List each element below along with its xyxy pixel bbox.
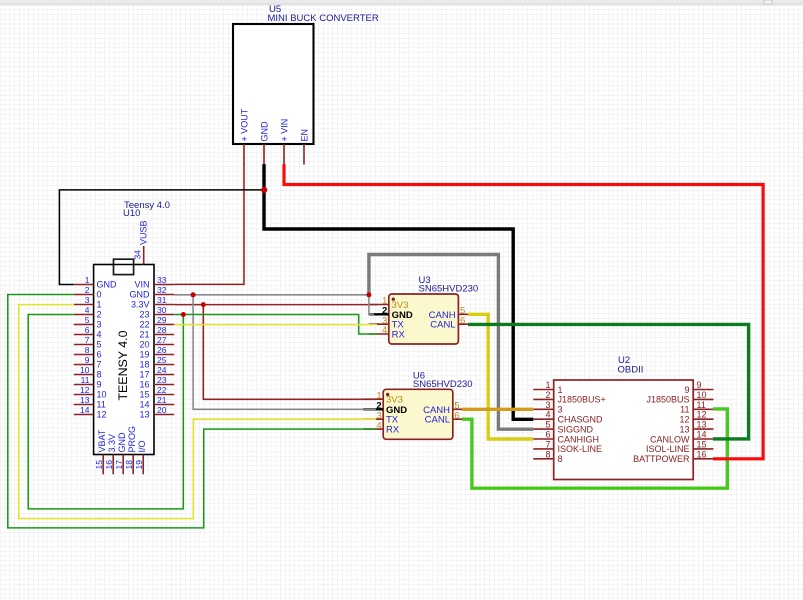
pin number 3 — [382, 315, 387, 326]
svg-text:18: 18 — [124, 460, 134, 470]
pin label 13 (pin 20) — [139, 410, 149, 420]
pin label GND (pin 17) — [117, 432, 127, 453]
svg-text:6: 6 — [545, 430, 550, 440]
svg-text:MINI BUCK CONVERTER: MINI BUCK CONVERTER — [268, 13, 379, 24]
pin label 11 (pin 11) — [680, 405, 689, 415]
wire +12V thick red (buck +VIN to OBDII BATTPOWER) — [284, 164, 763, 459]
svg-text:4: 4 — [382, 325, 387, 336]
svg-text:3.3V: 3.3V — [131, 300, 150, 310]
pin 5 stub (U2 left) — [533, 428, 553, 430]
pin 15 stub (U2 right) — [693, 448, 713, 450]
pin EN stub — [303, 144, 305, 165]
pin number 7 — [545, 439, 550, 449]
wire TX1 yellow net (Teensy pin29 to U3 TX) — [174, 324, 377, 326]
pin number 6 — [85, 325, 90, 335]
pin 24 stub (Teensy right) — [154, 374, 174, 376]
svg-text:4: 4 — [97, 330, 102, 340]
pin label VBAT (pin 15) — [97, 429, 107, 452]
pin label CANLOW (pin 14) — [650, 434, 690, 444]
svg-text:6: 6 — [454, 410, 459, 421]
wire GND thin (Teensy pin1 GND to thick GND wire) — [59, 190, 264, 285]
svg-text:11: 11 — [697, 400, 706, 410]
svg-text:U10: U10 — [123, 208, 140, 219]
svg-text:2: 2 — [97, 310, 102, 320]
pin label RX (pin 4) — [392, 330, 406, 341]
svg-text:VIN: VIN — [134, 280, 149, 290]
pin number 14 — [697, 430, 707, 440]
pin number 3 — [376, 410, 381, 421]
wire RX1 green net (Teensy pin4 / pin30 to U3 RX) — [28, 315, 377, 509]
pin number 13 — [697, 420, 707, 430]
label U2 — [618, 355, 630, 366]
pin label 15 (pin 22) — [139, 390, 149, 400]
pin label 21 (pin 28) — [139, 330, 149, 340]
svg-text:14: 14 — [697, 430, 707, 440]
pin number 12 — [80, 385, 90, 395]
pin number 30 — [157, 305, 167, 315]
svg-text:1: 1 — [558, 385, 563, 395]
svg-text:9: 9 — [684, 385, 689, 395]
pin label GND (pin 1) — [97, 280, 118, 290]
svg-text:3: 3 — [545, 400, 550, 410]
pin number 20 — [157, 405, 167, 415]
IC U3 body (SN65HVD230) — [389, 294, 459, 344]
svg-text:9: 9 — [97, 380, 102, 390]
pin label CANL (pin 6) — [430, 320, 455, 331]
pin number 33 — [157, 275, 167, 285]
svg-text:6: 6 — [97, 350, 102, 360]
pin number 29 — [157, 315, 167, 325]
svg-text:33: 33 — [157, 275, 167, 285]
svg-text:13: 13 — [80, 395, 90, 405]
pin number 12 — [697, 410, 707, 420]
pin 10 stub (Teensy left) — [74, 374, 94, 376]
svg-text:1: 1 — [97, 300, 102, 310]
pin number 11 — [697, 400, 706, 410]
pin label 22 (pin 29) — [139, 320, 149, 330]
pin label SIGGND (pin 5) — [558, 424, 594, 434]
pin number 25 — [157, 355, 167, 365]
pin 25 stub (Teensy right) — [154, 364, 174, 366]
svg-text:3: 3 — [85, 295, 90, 305]
wire CANH2 orange (U6 CANH to OBDII pin3) — [462, 408, 533, 411]
svg-text:14: 14 — [139, 400, 149, 410]
pin 2 stub (Teensy left) — [74, 294, 94, 296]
pin number 5 — [460, 306, 465, 317]
svg-text:23: 23 — [139, 310, 149, 320]
svg-text:21: 21 — [157, 395, 167, 405]
pin number 1 — [376, 390, 381, 401]
pin 19 stub (Teensy bottom) — [142, 455, 144, 475]
svg-text:14: 14 — [80, 405, 90, 415]
pin +VIN stub — [283, 144, 285, 165]
svg-text:CANL: CANL — [425, 415, 450, 426]
pin number 18 — [124, 460, 134, 470]
pin 29 stub (Teensy right) — [154, 324, 174, 326]
pin number 31 — [157, 295, 167, 305]
pin number 3 — [85, 295, 90, 305]
svg-text:16: 16 — [139, 380, 149, 390]
pin 13 stub (U2 right) — [693, 428, 713, 430]
svg-text:10: 10 — [80, 365, 90, 375]
svg-text:3: 3 — [558, 405, 563, 415]
pin 14 stub (Teensy left) — [74, 414, 94, 416]
pin 6 stub (U3 right) — [458, 323, 478, 325]
pin number 27 — [157, 335, 167, 345]
pin number 15 — [94, 460, 104, 470]
pin 23 stub (Teensy right) — [154, 384, 174, 386]
IC U6 body (SN65HVD230) — [383, 389, 453, 439]
svg-text:13: 13 — [679, 424, 689, 434]
pin number 15 — [697, 439, 707, 449]
svg-text:27: 27 — [157, 335, 167, 345]
svg-text:34: 34 — [133, 250, 143, 260]
wire GND gray thin (Teensy pin32 to U3 pin2 / U6 pin2) — [174, 295, 376, 410]
svg-text:7: 7 — [85, 335, 90, 345]
pin number 6 — [545, 430, 550, 440]
svg-text:7: 7 — [545, 439, 550, 449]
junction gray branch — [191, 292, 196, 297]
label U10 — [123, 208, 140, 219]
pin label TX (pin 3) — [392, 320, 405, 331]
pin label 0 (pin 2) — [97, 290, 102, 300]
pin 2 stub (U6 left) — [363, 408, 383, 410]
pin label 19 (pin 26) — [139, 350, 149, 360]
svg-text:24: 24 — [157, 365, 167, 375]
svg-text:0: 0 — [97, 290, 102, 300]
pin 31 stub (Teensy right) — [154, 304, 174, 306]
pin label CANH (pin 5) — [423, 405, 450, 416]
svg-text:10: 10 — [697, 390, 707, 400]
wire 3V3 net (Teensy 3.3V pin31 to U3 pin1 and U6 pin1) — [174, 305, 377, 400]
pin number 32 — [157, 285, 167, 295]
pin 28 stub (Teensy right) — [154, 334, 174, 336]
pin number 5 — [454, 401, 459, 412]
pin number 9 — [697, 380, 702, 390]
svg-text:8: 8 — [545, 449, 550, 459]
svg-text:11: 11 — [81, 375, 90, 385]
pin label GND (pin 32) — [130, 290, 151, 300]
pin number 16 — [104, 460, 114, 470]
svg-text:5: 5 — [545, 420, 550, 430]
pin number 19 — [134, 460, 144, 470]
pin label 1 (pin 3) — [97, 300, 102, 310]
label U6 — [413, 370, 425, 381]
svg-text:+ VOUT: + VOUT — [240, 108, 250, 141]
pin 16 stub (Teensy bottom) — [112, 455, 114, 475]
pin label 4 (pin 6) — [97, 330, 102, 340]
svg-text:3: 3 — [97, 320, 102, 330]
svg-text:22: 22 — [157, 385, 167, 395]
svg-text:7: 7 — [97, 360, 102, 370]
svg-text:19: 19 — [139, 350, 149, 360]
pin number 4 — [85, 305, 90, 315]
svg-text:18: 18 — [139, 360, 149, 370]
pin 16 stub (U2 right) — [693, 458, 713, 460]
pin 9 stub (Teensy left) — [74, 364, 94, 366]
svg-text:OBDII: OBDII — [618, 365, 644, 376]
pin 6 stub (Teensy left) — [74, 334, 94, 336]
pin number 2 — [85, 285, 90, 295]
svg-text:4: 4 — [545, 410, 550, 420]
pin label 2 (pin 4) — [97, 310, 102, 320]
svg-text:21: 21 — [139, 330, 149, 340]
svg-text:16: 16 — [697, 449, 707, 459]
svg-text:12: 12 — [97, 410, 107, 420]
svg-text:VBAT: VBAT — [97, 429, 107, 452]
pin 5 stub (U6 right) — [453, 408, 473, 410]
svg-text:2: 2 — [545, 390, 550, 400]
pin label ISOL-LINE (pin 15) — [646, 444, 690, 454]
pin label CANHIGH (pin 6) — [558, 434, 600, 444]
U10 usb notch — [114, 259, 134, 274]
big label TEENSY 4.0 vertical — [116, 330, 130, 400]
svg-text:RX: RX — [386, 425, 400, 436]
pin 4 stub (U6 left) — [363, 428, 383, 430]
pin 1 stub (Teensy left) — [74, 284, 94, 286]
pin number 2 — [545, 390, 550, 400]
svg-text:CANLOW: CANLOW — [650, 434, 690, 444]
pin GND stub — [263, 144, 265, 165]
pin number 4 — [545, 410, 550, 420]
pin number 14 — [80, 405, 90, 415]
wire RX2 green net (Teensy pin2 to U6 RX) — [8, 295, 376, 528]
pin label +VIN — [280, 119, 290, 142]
svg-text:ISOL-LINE: ISOL-LINE — [646, 444, 690, 454]
svg-text:1: 1 — [545, 380, 550, 390]
svg-text:I/O: I/O — [137, 440, 147, 452]
svg-text:16: 16 — [104, 460, 114, 470]
pin label 23 (pin 30) — [139, 310, 149, 320]
pin 1 stub (U3 left) — [369, 304, 389, 306]
junction gray at U3 — [366, 292, 371, 297]
pin number 10 — [80, 365, 90, 375]
pin label 3V3 (pin 1) — [386, 395, 403, 406]
wire SIGGND thick gray (U3 GND junction to OBDII SIGGND) — [369, 255, 533, 430]
svg-text:26: 26 — [157, 345, 167, 355]
pin 7 stub (Teensy left) — [74, 344, 94, 346]
IC U10 body — [94, 265, 154, 455]
pin label 12 (pin 12) — [679, 415, 689, 425]
top panel tab handle — [764, 0, 772, 4]
pin 3 stub (Teensy left) — [74, 304, 94, 306]
pin 1 stub (U6 left) — [363, 398, 383, 400]
svg-text:4: 4 — [376, 420, 381, 431]
svg-text:6: 6 — [460, 315, 465, 326]
svg-text:15: 15 — [697, 439, 707, 449]
junction 3V3 branch — [201, 302, 206, 307]
pin 4 stub (U2 left) — [533, 418, 553, 420]
svg-text:20: 20 — [139, 340, 149, 350]
svg-text:8: 8 — [558, 454, 563, 464]
pin +VOUT stub — [243, 144, 245, 165]
pin 12 stub (Teensy left) — [74, 394, 94, 396]
pin label 12 (pin 14) — [97, 410, 107, 420]
pin 3 stub (U3 left) — [369, 323, 389, 325]
pin 1 stub (U2 left) — [533, 389, 553, 391]
pin 5 stub (U3 right) — [458, 313, 478, 315]
svg-text:PROG: PROG — [127, 426, 137, 453]
pin 6 stub (U2 left) — [533, 438, 553, 440]
pin label 18 (pin 25) — [139, 360, 149, 370]
pin 4 stub (Teensy left) — [74, 314, 94, 316]
pin number 6 — [454, 410, 459, 421]
pin number 13 — [80, 395, 90, 405]
svg-text:BATTPOWER: BATTPOWER — [633, 454, 690, 464]
pin number 11 — [81, 375, 90, 385]
svg-text:22: 22 — [139, 320, 149, 330]
pin number 28 — [157, 325, 167, 335]
pin label 14 (pin 21) — [139, 400, 149, 410]
svg-text:9: 9 — [85, 355, 90, 365]
pin 9 stub (U2 right) — [693, 389, 713, 391]
top panel strip — [0, 0, 803, 6]
pin 14 stub (U2 right) — [693, 438, 713, 440]
svg-text:19: 19 — [134, 460, 144, 470]
pin 33 stub (Teensy right) — [154, 284, 174, 286]
svg-text:SN65HVD230: SN65HVD230 — [413, 379, 473, 390]
pin number 34 — [133, 250, 143, 260]
pin label 20 (pin 27) — [139, 340, 149, 350]
junction green RX1 branch — [181, 312, 186, 317]
svg-text:12: 12 — [80, 385, 90, 395]
connector U2 body (OBDII) — [554, 380, 694, 480]
pin number 4 — [376, 420, 381, 431]
svg-text:CANHIGH: CANHIGH — [558, 434, 600, 444]
svg-text:EN: EN — [300, 129, 310, 142]
wire CANH1 thick yellow (U3 CANH to OBDII CANHIGH) — [468, 314, 533, 439]
pin number 22 — [157, 385, 167, 395]
svg-text:ISOK-LINE: ISOK-LINE — [558, 444, 603, 454]
pin label +VOUT — [240, 108, 250, 141]
svg-text:29: 29 — [157, 315, 167, 325]
pin label PROG (pin 18) — [127, 426, 137, 453]
pin number 2 — [382, 306, 387, 317]
pin label CANL (pin 6) — [425, 415, 450, 426]
pin number 16 — [697, 449, 707, 459]
pin label CHASGND (pin 4) — [558, 415, 604, 425]
pin 2 stub (U3 left) — [369, 313, 389, 315]
pin label 1 (pin 1) — [558, 385, 563, 395]
wire CANL2 bright green (U6 CANL to OBDII pin11) — [462, 409, 727, 488]
pin label GND (pin 2) — [386, 405, 407, 416]
pin number 4 — [382, 325, 387, 336]
pin label 5 (pin 7) — [97, 340, 102, 350]
pin 2 stub (U2 left) — [533, 398, 553, 400]
svg-text:20: 20 — [157, 405, 167, 415]
svg-text:8: 8 — [85, 345, 90, 355]
svg-text:GND: GND — [260, 121, 270, 142]
pin 34 stub — [143, 246, 145, 265]
wire CANL1 thick dark green (U3 CANL to OBDII CANLOW) — [468, 324, 749, 439]
pin label 3V3 (pin 1) — [392, 300, 409, 311]
pin label 16 (pin 23) — [139, 380, 149, 390]
svg-text:3.3V: 3.3V — [107, 434, 117, 453]
pin number 1 — [85, 275, 90, 285]
svg-text:11: 11 — [680, 405, 689, 415]
svg-text:28: 28 — [157, 325, 167, 335]
svg-text:11: 11 — [97, 400, 106, 410]
label MINI BUCK CONVERTER — [268, 13, 379, 24]
pin label EN — [300, 129, 310, 142]
pin label RX (pin 4) — [386, 425, 400, 436]
svg-text:15: 15 — [94, 460, 104, 470]
svg-text:GND: GND — [117, 432, 127, 453]
pin number 10 — [697, 390, 707, 400]
pin label 9 (pin 11) — [97, 380, 102, 390]
pin 8 stub (Teensy left) — [74, 354, 94, 356]
svg-text:23: 23 — [157, 375, 167, 385]
svg-text:+ VIN: + VIN — [280, 119, 290, 142]
pin number 8 — [85, 345, 90, 355]
pin 30 stub (Teensy right) — [154, 314, 174, 316]
svg-text:J1850BUS+: J1850BUS+ — [558, 395, 606, 405]
pin number 24 — [157, 365, 167, 375]
pin number 6 — [460, 315, 465, 326]
pin label 11 (pin 13) — [97, 400, 106, 410]
svg-text:1: 1 — [85, 275, 90, 285]
pin label ISOK-LINE (pin 7) — [558, 444, 603, 454]
pin 22 stub (Teensy right) — [154, 394, 174, 396]
pin 12 stub (U2 right) — [693, 418, 713, 420]
pin label 13 (pin 13) — [679, 424, 689, 434]
svg-text:15: 15 — [139, 390, 149, 400]
svg-text:4: 4 — [85, 305, 90, 315]
pin 18 stub (Teensy bottom) — [132, 455, 134, 475]
svg-text:13: 13 — [139, 410, 149, 420]
pin 32 stub (Teensy right) — [154, 294, 174, 296]
pin number 17 — [114, 460, 124, 470]
wire TX2 yellow net (Teensy pin3 to U6 TX) — [19, 305, 376, 519]
pin label TX (pin 3) — [386, 415, 399, 426]
pin 3 stub (U6 left) — [363, 418, 383, 420]
pin number 2 — [376, 401, 381, 412]
svg-text:32: 32 — [157, 285, 167, 295]
wire GND thick (buck GND to OBDII CHASGND) — [264, 164, 533, 419]
pin 20 stub (Teensy right) — [154, 414, 174, 416]
pin number 3 — [545, 400, 550, 410]
pin 1 marker dot — [392, 298, 395, 301]
pin label GND (pin 2) — [392, 310, 413, 321]
pin 13 stub (Teensy left) — [74, 404, 94, 406]
svg-text:GND: GND — [130, 290, 151, 300]
svg-text:GND: GND — [97, 280, 118, 290]
svg-text:5: 5 — [85, 315, 90, 325]
pin 4 stub (U3 left) — [369, 333, 389, 335]
label U3 — [419, 275, 431, 286]
pin label BATTPOWER (pin 16) — [633, 454, 690, 464]
pin 21 stub (Teensy right) — [154, 404, 174, 406]
svg-text:TEENSY 4.0: TEENSY 4.0 — [116, 330, 130, 400]
svg-text:RX: RX — [392, 330, 406, 341]
svg-text:6: 6 — [85, 325, 90, 335]
svg-text:8: 8 — [97, 370, 102, 380]
pin number 5 — [85, 315, 90, 325]
svg-text:SN65HVD230: SN65HVD230 — [419, 284, 479, 295]
pin number 9 — [85, 355, 90, 365]
pin label 9 (pin 9) — [684, 385, 689, 395]
pin label 6 (pin 8) — [97, 350, 102, 360]
svg-text:9: 9 — [697, 380, 702, 390]
label U5 — [269, 4, 281, 15]
svg-text:30: 30 — [157, 305, 167, 315]
pin label 8 (pin 8) — [558, 454, 563, 464]
svg-text:12: 12 — [679, 415, 689, 425]
pin number 1 — [382, 296, 387, 307]
pin number 26 — [157, 345, 167, 355]
label SN65HVD230 — [413, 379, 473, 390]
pin label 3.3V (pin 16) — [107, 434, 117, 453]
